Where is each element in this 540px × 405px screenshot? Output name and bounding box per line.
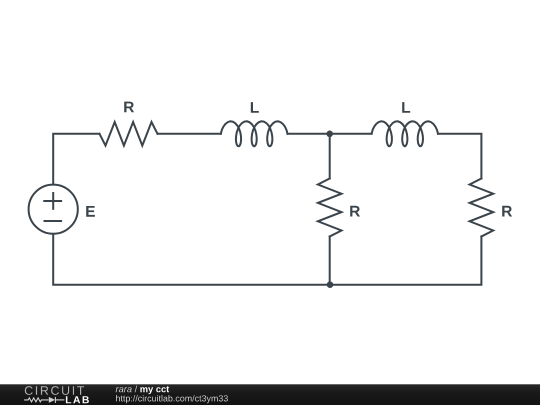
label R3 — [502, 206, 512, 217]
footer url — [116, 395, 228, 403]
footer credit: rara / — [116, 386, 138, 393]
label R2 — [350, 206, 360, 217]
voltage source E circle — [29, 185, 78, 234]
minus sign — [45, 220, 62, 222]
footer credit: my cct — [140, 386, 169, 394]
inductor L2 — [372, 121, 438, 146]
resistor R2 (middle) — [318, 179, 342, 237]
label L1 — [251, 102, 259, 113]
logo diode triangle — [49, 397, 55, 403]
label L2 — [402, 102, 410, 113]
wire node B down to R2 — [329, 134, 331, 179]
wire R1 to L1 — [158, 133, 221, 135]
logo wordmark CIRCUIT — [25, 386, 84, 395]
junction dot node B — [326, 131, 333, 138]
wire: R3 bottom down, bottom rail leftwards, up to source bottom — [53, 235, 481, 285]
wire R2 bottom to bottom node — [329, 237, 331, 285]
logo squiggle wire + resistor zigzag — [24, 397, 64, 403]
label R1 — [124, 102, 134, 113]
plus sign — [44, 200, 61, 202]
wire: source top up to top-left corner, right to R1 — [53, 134, 99, 184]
junction dot bottom node — [327, 281, 334, 288]
wire L2 to top-right corner down to R3 — [438, 134, 481, 179]
label E — [86, 206, 95, 217]
resistor R3 (right) — [470, 179, 494, 237]
inductor L1 — [221, 121, 288, 146]
logo LAB — [66, 396, 89, 403]
wire L1 through node B to L2 — [288, 133, 372, 135]
resistor R1 — [100, 122, 158, 146]
